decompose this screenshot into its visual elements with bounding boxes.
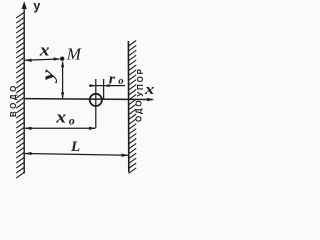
x-axis arrowhead	[147, 98, 154, 102]
x dimension left arrowhead (at wall)	[25, 59, 32, 62]
x0 dimension line	[25, 127, 96, 129]
right wall line	[127, 41, 129, 172]
svg-text:x: x	[39, 40, 50, 59]
right wall hatching	[129, 41, 137, 174]
svg-text:M: M	[66, 45, 82, 64]
left wall (y-axis line)	[23, 8, 25, 174]
r0 right extension line	[103, 79, 105, 99]
svg-text:r: r	[109, 71, 116, 88]
svg-text:ОДО: ОДО	[135, 99, 144, 122]
L right arrowhead	[122, 154, 129, 157]
x dimension right arrowhead (at M)	[54, 57, 61, 60]
L dimension line	[25, 154, 128, 156]
r0 dimension line	[89, 85, 125, 87]
svg-text:x: x	[55, 108, 66, 127]
left wall hatching	[16, 13, 24, 179]
svg-text:ВОДО: ВОДО	[9, 83, 18, 117]
svg-text:o: o	[118, 76, 123, 87]
svg-text:x: x	[144, 81, 155, 98]
x0 right arrowhead	[89, 127, 96, 130]
svg-text:УПОР: УПОР	[136, 67, 145, 97]
y dimension bottom arrowhead	[61, 92, 64, 98]
ring circle	[90, 94, 102, 106]
svg-text:y: y	[33, 0, 40, 13]
y-axis arrowhead	[22, 1, 27, 9]
x coordinate dimension line	[25, 59, 60, 60]
x0 left arrowhead	[25, 127, 32, 130]
point M	[60, 57, 64, 61]
L left arrowhead	[25, 152, 32, 155]
circle vertical centerline	[95, 79, 97, 128]
r0 arrowhead pointing left at right extension	[104, 84, 110, 87]
svg-text:o: o	[69, 113, 75, 127]
y coordinate dimension line	[62, 62, 64, 99]
y dimension top arrowhead	[61, 61, 64, 67]
r0 arrowhead pointing right at centerline	[90, 84, 96, 87]
svg-text:L: L	[70, 139, 80, 155]
x-axis baseline	[24, 98, 152, 101]
